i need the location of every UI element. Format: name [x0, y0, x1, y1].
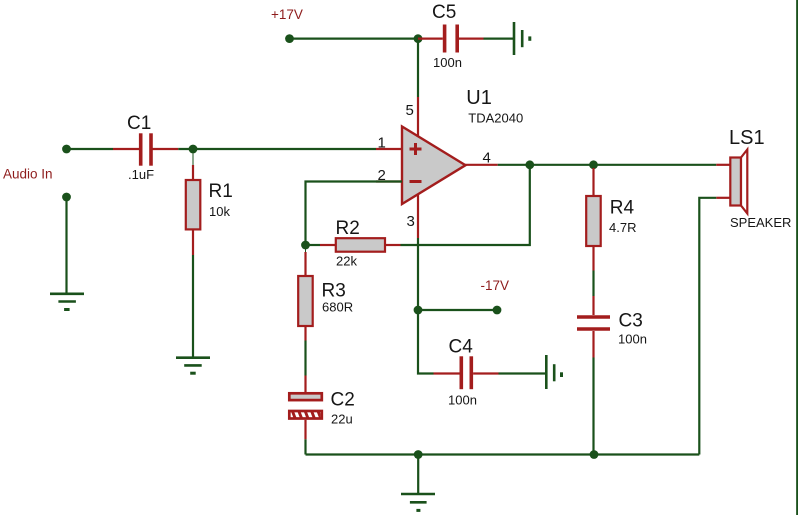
ground (bottom)	[401, 494, 435, 510]
pin 5 stub	[417, 97, 419, 137]
wire C2 to bottom rail	[304, 439, 306, 454]
svg-text:100n: 100n	[433, 55, 462, 70]
svg-text:C4: C4	[449, 337, 474, 358]
wire C1 to junction and to pin1	[178, 148, 376, 150]
speaker LS1	[716, 150, 747, 214]
svg-text:U1: U1	[466, 87, 492, 109]
svg-text:R3: R3	[322, 281, 346, 302]
svg-text:C5: C5	[432, 2, 456, 23]
svg-text:22k: 22k	[336, 254, 357, 269]
wire pin5 vertical green	[417, 39, 419, 97]
svg-text:4.7R: 4.7R	[609, 220, 636, 235]
pin 2 stub	[376, 180, 402, 182]
wire -17V branch	[418, 309, 497, 311]
svg-text:C3: C3	[619, 311, 643, 332]
wire R4 to C3	[592, 271, 594, 297]
svg-text:3: 3	[407, 213, 415, 230]
node audio ground terminal	[62, 193, 71, 202]
junction node C1 / R1 / pin1	[189, 145, 198, 154]
junction node R2 / R3 / pin2	[301, 241, 310, 250]
junction node bottom rail / C3	[590, 450, 599, 459]
capacitor C3	[577, 296, 610, 358]
svg-text:R4: R4	[610, 198, 635, 219]
capacitor C2 (electrolytic)	[289, 376, 328, 440]
wire R3 to C2	[304, 341, 306, 376]
pin 4 stub	[464, 164, 498, 166]
svg-text:5: 5	[406, 102, 414, 119]
wire audio ground	[65, 197, 67, 294]
wire R2 left	[306, 244, 321, 246]
ground (rotated right, C4)	[546, 355, 561, 389]
wire R1 to ground	[192, 255, 194, 358]
wire audio input	[67, 148, 114, 150]
wire +17V rail	[290, 37, 419, 39]
resistor R3	[298, 245, 313, 341]
svg-text:Audio In: Audio In	[3, 167, 53, 182]
svg-text:R1: R1	[209, 181, 233, 202]
resistor R1	[186, 149, 201, 255]
capacitor C5	[418, 25, 484, 53]
svg-text:-17V: -17V	[481, 278, 510, 293]
svg-text:LS1: LS1	[729, 127, 765, 149]
node +17V terminal	[285, 34, 294, 43]
wire to bottom ground	[417, 455, 419, 495]
svg-text:C2: C2	[331, 390, 355, 411]
wire C5 to ground	[484, 37, 514, 39]
ground (rotated right, top)	[514, 22, 530, 55]
capacitor C4	[434, 356, 499, 389]
wire C3 to bottom rail	[592, 358, 594, 455]
resistor R2	[320, 238, 401, 252]
junction node output / feedback	[525, 160, 534, 169]
svg-text:100n: 100n	[448, 393, 477, 408]
svg-text:TDA2040: TDA2040	[468, 111, 523, 126]
svg-text:+17V: +17V	[271, 7, 303, 22]
svg-text:SPEAKER: SPEAKER	[730, 215, 791, 230]
pin 3 stub	[417, 194, 419, 238]
capacitor C1	[113, 133, 178, 165]
wire C4 to ground	[499, 372, 546, 374]
wire speaker to bottom rail	[699, 198, 716, 455]
svg-text:R2: R2	[336, 218, 360, 239]
ground (R1)	[176, 358, 210, 374]
pin 1 stub	[376, 148, 402, 150]
node -17V terminal	[493, 306, 502, 315]
svg-text:680R: 680R	[322, 300, 353, 315]
svg-text:1: 1	[378, 135, 386, 152]
junction node bottom rail / ground	[414, 450, 423, 459]
junction node output / R4	[589, 160, 598, 169]
node audio input terminal	[62, 145, 71, 154]
junction node pin3 / -17V	[414, 306, 423, 315]
wire bottom rail	[306, 453, 700, 455]
op-amp U1 TDA2040	[402, 127, 466, 205]
wire R2 to output (feedback)	[401, 165, 530, 245]
junction node top rail / pin5 / C5	[414, 34, 423, 43]
svg-text:10k: 10k	[209, 204, 230, 219]
wire output	[498, 164, 717, 166]
resistor R4	[586, 168, 601, 271]
wire pin3 node down to C4	[418, 310, 434, 374]
svg-text:4: 4	[483, 150, 491, 167]
svg-text:.1uF: .1uF	[128, 167, 154, 182]
svg-text:C1: C1	[127, 113, 151, 134]
svg-text:22u: 22u	[331, 412, 353, 427]
border frame right edge	[796, 0, 798, 515]
wire pin3 down to -17V node	[417, 238, 419, 310]
svg-text:100n: 100n	[618, 332, 647, 347]
wire pin2 to feedback node	[306, 182, 403, 246]
ground (audio input)	[50, 294, 84, 310]
